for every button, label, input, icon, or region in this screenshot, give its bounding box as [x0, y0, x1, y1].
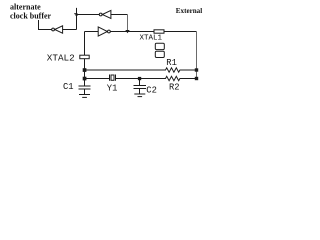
- inverter U1 (alternate clock buffer, pointing left): [52, 26, 63, 33]
- wire XTAL2 vertical: [84, 32, 86, 71]
- junction dot R2/right vertical: [195, 77, 198, 80]
- crystal package box bottom (floating): [155, 51, 164, 57]
- wire XTAL2 node to U3 input: [85, 31, 99, 33]
- wire node to U2 output: [77, 14, 100, 16]
- ground below C1: [79, 95, 90, 98]
- svg-text:clock buffer: clock buffer: [10, 12, 52, 21]
- wire right vertical of XTAL1 net: [196, 32, 198, 79]
- label: alternate clock buffer: [10, 2, 52, 20]
- crystal package box top (floating): [155, 43, 164, 49]
- wire leader from label to U1 output: [39, 20, 52, 30]
- pin box XTAL1: [154, 30, 164, 33]
- junction triangle on XTAL1 net: [125, 30, 129, 33]
- svg-text:R2: R2: [169, 82, 180, 92]
- wire A with resistor R1 body: [85, 68, 197, 72]
- junction dot XTAL2/wire A: [83, 68, 87, 72]
- capacitor C1: [79, 79, 91, 95]
- pin box XTAL2: [80, 55, 89, 59]
- svg-text:Y1: Y1: [107, 83, 118, 93]
- wire B left segment: [85, 78, 110, 80]
- junction dot at stub node: [75, 13, 77, 15]
- crystal Y1: [110, 75, 116, 81]
- svg-text:C2: C2: [146, 85, 157, 95]
- svg-text:External: External: [176, 7, 202, 15]
- junction dot wire B left: [83, 77, 87, 81]
- capacitor C2: [134, 79, 147, 95]
- ground below C2: [134, 94, 145, 97]
- svg-text:XTAL2: XTAL2: [47, 53, 75, 64]
- wire U2 input: [111, 14, 128, 16]
- wire down from U2 input to XTAL1 net: [127, 15, 129, 32]
- svg-text:alternate: alternate: [10, 2, 41, 11]
- wire vertical stub node above U2 output: [76, 8, 78, 30]
- junction dot R1/right vertical: [195, 68, 198, 71]
- junction dot C2 on wire B: [138, 77, 141, 80]
- inverter U2 (pointing left): [99, 10, 111, 18]
- svg-text:R1: R1: [166, 58, 177, 68]
- inverter U3 (pointing right): [98, 27, 110, 36]
- wire B with resistor R2 body: [116, 76, 197, 80]
- svg-text:C1: C1: [63, 82, 74, 92]
- wire XTAL1 net horizontal: [110, 31, 196, 33]
- svg-text:XTAL1: XTAL1: [140, 34, 163, 42]
- wire barb tick on stub: [74, 13, 76, 15]
- wire vertical A to B: [84, 70, 86, 79]
- wire U1 input: [63, 29, 77, 31]
